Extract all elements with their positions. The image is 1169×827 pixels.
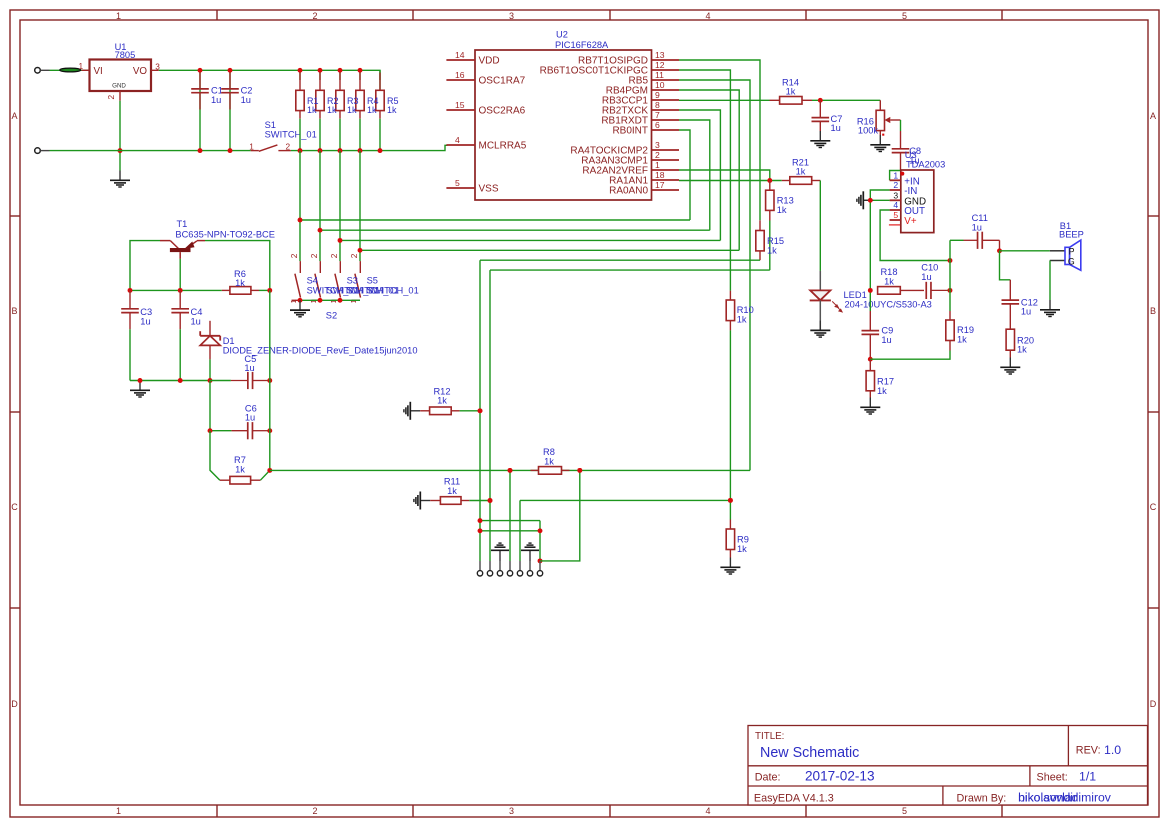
- capacitor C1 1u: [191, 86, 223, 105]
- junction OUT wire: [948, 258, 953, 263]
- capacitor C7 1u: [812, 114, 843, 133]
- wire R11 to column: [469, 500, 490, 502]
- svg-text:13: 13: [655, 50, 665, 60]
- wire R7 right bend: [260, 470, 269, 480]
- R7 leads: [220, 479, 261, 481]
- wire input to U1 VI: [50, 69, 90, 71]
- svg-text:1u: 1u: [831, 123, 841, 133]
- wire to speaker P: [1000, 250, 1050, 252]
- svg-text:VI: VI: [94, 66, 103, 77]
- wire bottom rail T1 area: [130, 380, 210, 382]
- svg-text:TITLE:: TITLE:: [755, 731, 784, 742]
- R18 right lead: [900, 289, 924, 291]
- resistor R15 1k: [756, 231, 784, 256]
- junction top rail x=300: [298, 68, 303, 73]
- junction pin1/pin18: [767, 178, 772, 183]
- svg-text:A: A: [1150, 111, 1156, 121]
- svg-text:4: 4: [455, 135, 460, 145]
- svg-text:1u: 1u: [972, 223, 982, 233]
- junction R8 right: [577, 468, 582, 473]
- wire R4 top lead: [359, 70, 361, 80]
- junction bus tap x=300: [298, 218, 303, 223]
- ground below C7: [810, 131, 830, 148]
- wire R3 top lead: [339, 70, 341, 80]
- junction C2 top: [228, 68, 233, 73]
- ferrite bead / ellipse on input wire: [60, 68, 81, 72]
- svg-text:V+: V+: [904, 216, 917, 227]
- wire R1 top lead: [299, 70, 301, 80]
- wire R13 bottom to bus270: [769, 221, 771, 271]
- wire to C11: [950, 239, 964, 241]
- capacitor C10 1u: [921, 263, 949, 299]
- svg-text:1: 1: [249, 141, 254, 151]
- wire R10 bottom to R9 line: [729, 330, 731, 500]
- regulator U1 7805: [79, 42, 161, 101]
- svg-text:D: D: [11, 699, 18, 709]
- svg-text:1u: 1u: [140, 316, 150, 326]
- capacitor C3 1u: [121, 307, 152, 326]
- wire R3 bottom lead: [339, 119, 341, 151]
- wire pin8 to bus: [679, 110, 720, 240]
- svg-text:4: 4: [705, 11, 710, 21]
- junction C6 right: [267, 428, 272, 433]
- wire parallel link y520: [480, 520, 540, 522]
- svg-text:1k: 1k: [1017, 345, 1027, 355]
- wire R5 bottom lead: [379, 119, 381, 151]
- bus wire y=220.0: [300, 219, 690, 221]
- C4 leads: [179, 290, 181, 329]
- switch S2 SWITCH_01: [349, 253, 361, 303]
- svg-text:S2: S2: [326, 311, 337, 321]
- svg-text:6: 6: [655, 120, 660, 130]
- capacitor C11 1u: [964, 213, 988, 249]
- svg-text:1u: 1u: [211, 95, 221, 105]
- junction bus tap x=360: [358, 248, 363, 253]
- wire R2 bottom lead: [319, 119, 321, 151]
- ground below R16: [870, 135, 890, 152]
- wire bus260 corner column1: [479, 260, 481, 561]
- wire link to R8 right: [540, 470, 580, 561]
- switch S3 SWITCH_01: [309, 253, 321, 303]
- resistor R4 1k: [356, 90, 364, 110]
- svg-text:12: 12: [655, 60, 665, 70]
- ground below R17: [860, 398, 880, 415]
- svg-text:MCLRRA5: MCLRRA5: [479, 141, 527, 152]
- junction top rail x=320: [318, 68, 323, 73]
- transistor T1 BC635-NPN-TO92-BCE: [160, 219, 275, 259]
- junction R9 top: [728, 498, 733, 503]
- inverted ground above pin6: [521, 543, 539, 561]
- wire parallel link y531: [480, 530, 540, 532]
- R20 bottom lead: [1009, 350, 1011, 357]
- svg-text:1: 1: [116, 11, 121, 21]
- wire U3 pin4 OUT: [880, 210, 950, 261]
- junction top rail x=360: [358, 68, 363, 73]
- junction top rail x=340: [338, 68, 343, 73]
- svg-text:New Schematic: New Schematic: [760, 745, 859, 761]
- potentiometer R16 100k: [857, 100, 901, 135]
- svg-text:1k: 1k: [347, 105, 357, 115]
- junction C10 right: [948, 288, 953, 293]
- junction C5 right: [267, 378, 272, 383]
- svg-text:3: 3: [893, 191, 898, 201]
- svg-text:S3: S3: [347, 275, 358, 285]
- wire pin1 to junction: [679, 170, 770, 181]
- svg-text:1u: 1u: [244, 363, 254, 373]
- svg-text:SWITCH_01: SWITCH_01: [367, 286, 419, 296]
- svg-text:S4: S4: [307, 275, 318, 285]
- svg-text:B: B: [11, 306, 17, 316]
- resistor R18 1k: [878, 267, 901, 294]
- switch S5 SWITCH_01: [329, 253, 341, 303]
- junction R7 right: [267, 468, 272, 473]
- amplifier U3 TDA2003: [889, 150, 945, 233]
- svg-text:3: 3: [509, 806, 514, 816]
- svg-text:5: 5: [893, 210, 898, 220]
- svg-text:5: 5: [902, 806, 907, 816]
- junction R9 top (top): [728, 498, 733, 503]
- ground at bottom rail: [130, 381, 150, 398]
- capacitor C6 1u: [231, 403, 267, 439]
- R21 leads: [782, 180, 821, 182]
- R9 leads: [729, 520, 731, 558]
- wire S1 to resistor rail: [291, 150, 380, 152]
- wire pin10 to bus: [679, 90, 739, 250]
- bus wire y=260: [480, 259, 760, 261]
- svg-text:8: 8: [655, 100, 660, 110]
- junction C9 bottom: [868, 357, 873, 362]
- speaker B1 BEEP: [1050, 221, 1084, 270]
- junction T1 left: [128, 288, 133, 293]
- junction col7 y531: [538, 528, 543, 533]
- svg-text:2017-02-13: 2017-02-13: [805, 769, 875, 784]
- R11 leads: [430, 500, 469, 502]
- resistor R10 1k: [726, 300, 754, 324]
- ground below R9: [720, 558, 740, 575]
- svg-text:VSS: VSS: [479, 184, 499, 195]
- svg-text:5: 5: [902, 11, 907, 21]
- svg-text:Date:: Date:: [755, 771, 781, 783]
- svg-text:1k: 1k: [235, 278, 245, 288]
- R12 leads: [420, 410, 459, 412]
- R14 leads: [770, 99, 813, 101]
- svg-text:G: G: [1068, 257, 1075, 267]
- svg-text:204-10UYC/S530-A3: 204-10UYC/S530-A3: [845, 300, 932, 310]
- wire column7 segment: [539, 521, 541, 561]
- wire switch bottoms: [300, 299, 360, 301]
- wire R19 bottom to C9 junction: [870, 351, 950, 360]
- wire U3 pin2 -IN: [870, 190, 889, 290]
- resistor R17 1k: [866, 371, 894, 396]
- junction C6 left: [208, 428, 213, 433]
- wire R9 line: [520, 499, 730, 501]
- svg-text:VDD: VDD: [479, 56, 500, 67]
- bus wire y=230.2: [320, 229, 710, 231]
- svg-text:2: 2: [655, 150, 660, 160]
- ground left of R11: [414, 492, 430, 510]
- svg-text:RB0INT: RB0INT: [612, 126, 648, 137]
- wire R8 line: [270, 469, 750, 471]
- svg-text:1u: 1u: [881, 335, 891, 345]
- svg-text:1k: 1k: [437, 396, 447, 406]
- svg-text:U2: U2: [556, 30, 568, 40]
- junction C2 bottom: [228, 148, 233, 153]
- wire R14 to R16: [812, 99, 880, 101]
- R15 leads: [759, 220, 761, 260]
- wire U1 pin2 to ground rail: [119, 101, 121, 171]
- wire pin13 to R15 column: [679, 60, 760, 220]
- R6 leads: [222, 289, 259, 291]
- svg-text:4: 4: [705, 806, 710, 816]
- wire column4 from R8 left: [509, 470, 511, 561]
- svg-text:1: 1: [79, 61, 84, 71]
- svg-text:1k: 1k: [796, 167, 806, 177]
- svg-text:1k: 1k: [544, 457, 554, 467]
- wire x210 down: [209, 381, 211, 431]
- junction col1 y531: [478, 528, 483, 533]
- resistor R20 1k: [1006, 329, 1034, 355]
- junction bottom rail x=340: [338, 148, 343, 153]
- wire C4 bottom: [179, 329, 181, 380]
- svg-text:1k: 1k: [786, 87, 796, 97]
- labels R1-R5: [307, 96, 399, 115]
- junction bus tap x=320: [318, 228, 323, 233]
- resistor R12 1k: [430, 386, 452, 414]
- junction R14/C7: [818, 98, 823, 103]
- svg-text:2: 2: [289, 253, 299, 258]
- svg-text:1k: 1k: [447, 486, 457, 496]
- svg-text:11: 11: [655, 70, 664, 80]
- wire switch column x=340: [339, 151, 341, 262]
- svg-text:15: 15: [455, 100, 465, 110]
- wire C5 left: [210, 380, 231, 382]
- wire C6 left: [210, 430, 231, 432]
- wire R16 wiper down: [900, 120, 902, 131]
- C3 leads: [129, 290, 131, 329]
- svg-text:3: 3: [509, 11, 514, 21]
- wire R4 bottom lead: [359, 119, 361, 151]
- resistor R5 1k: [376, 90, 384, 110]
- wire switch column x=360: [359, 151, 361, 262]
- svg-text:OSC2RA6: OSC2RA6: [479, 106, 526, 117]
- junction bottom rail x=300: [298, 148, 303, 153]
- R13 leads: [769, 181, 771, 221]
- wire pin6 to bus: [679, 130, 690, 220]
- R19 leads: [949, 311, 951, 351]
- svg-text:C: C: [11, 502, 18, 512]
- svg-text:EasyEDA V4.1.3: EasyEDA V4.1.3: [754, 792, 834, 804]
- C9 leads: [869, 311, 871, 359]
- resistor R14 1k: [780, 77, 802, 104]
- wire pin12 to R10 column: [679, 70, 730, 291]
- svg-text:5: 5: [455, 178, 460, 188]
- capacitor C8 1u: [892, 146, 921, 165]
- bus wire y=270: [490, 269, 770, 271]
- resistor R6 1k: [230, 269, 251, 294]
- junction gnd tap: [138, 378, 143, 383]
- svg-text:1u: 1u: [245, 413, 255, 423]
- svg-text:TDA2003: TDA2003: [906, 159, 945, 169]
- svg-text:4: 4: [893, 200, 898, 210]
- resistor R13 1k: [766, 190, 794, 215]
- terminal input (-): [35, 148, 50, 154]
- svg-text:SWITCH_01: SWITCH_01: [265, 130, 317, 140]
- resistor R21 1k: [790, 157, 812, 184]
- junction bus tap x=340: [338, 238, 343, 243]
- junction R12: [478, 408, 483, 413]
- C7 top lead: [819, 100, 821, 131]
- svg-text:100k: 100k: [858, 126, 879, 136]
- C11 right lead: [982, 240, 999, 251]
- wire C2 column: [229, 70, 231, 150]
- svg-text:1: 1: [116, 806, 121, 816]
- svg-text:RA0AN0: RA0AN0: [609, 186, 648, 197]
- wire C6 right: [267, 430, 270, 432]
- zener diode D1: [200, 321, 417, 360]
- svg-text:9: 9: [655, 90, 660, 100]
- svg-text:OSC1RA7: OSC1RA7: [479, 76, 526, 87]
- C2 red leads: [229, 70, 231, 109]
- junction T1 base: [178, 288, 183, 293]
- resistor R11 1k: [440, 477, 461, 505]
- svg-text:GND: GND: [112, 83, 126, 90]
- svg-text:LED1: LED1: [844, 290, 867, 300]
- resistor R2 1k: [316, 90, 324, 110]
- wire R19 column: [949, 240, 951, 311]
- svg-text:T1: T1: [177, 219, 188, 229]
- junction C1 top: [198, 68, 203, 73]
- svg-text:1/1: 1/1: [1079, 770, 1096, 784]
- svg-text:1: 1: [893, 171, 898, 181]
- resistor R3 1k: [336, 90, 344, 110]
- junction U1 ground column: [118, 148, 123, 153]
- svg-text:Sheet:: Sheet:: [1037, 771, 1068, 783]
- svg-text:2: 2: [312, 11, 317, 21]
- svg-text:1k: 1k: [387, 105, 397, 115]
- C1 red leads: [199, 70, 201, 109]
- switch labels S4 S3 S5 S2: [307, 275, 419, 320]
- svg-text:1u: 1u: [241, 95, 251, 105]
- wire pin7 to bus: [679, 120, 710, 230]
- svg-text:7805: 7805: [115, 50, 136, 60]
- junction col1 y520: [478, 518, 483, 523]
- svg-text:17: 17: [655, 180, 665, 190]
- R8 leads: [531, 469, 570, 471]
- wire C3 bottom: [129, 329, 131, 380]
- svg-text:BEEP: BEEP: [1059, 230, 1084, 240]
- junction D1 bottom: [208, 378, 213, 383]
- connector terminals (7 pins): [477, 561, 542, 576]
- wire switch column x=300: [299, 151, 301, 262]
- svg-text:3: 3: [655, 140, 660, 150]
- R4 leads: [359, 73, 361, 119]
- svg-text:1u: 1u: [1021, 307, 1031, 317]
- junction bottom rail x=380: [378, 148, 383, 153]
- bus wire y=250.3: [360, 249, 739, 251]
- svg-text:PIC16F628A: PIC16F628A: [555, 40, 609, 50]
- R2 leads: [319, 73, 321, 119]
- junction R11 (top): [488, 498, 493, 503]
- svg-text:10: 10: [655, 80, 665, 90]
- wire D1 to rail: [209, 359, 211, 380]
- R17 leads: [869, 359, 871, 397]
- junction R8 left (top): [508, 468, 513, 473]
- svg-text:VO: VO: [133, 66, 148, 77]
- junction bottom rail x=320: [318, 148, 323, 153]
- wire switch column x=320: [319, 151, 321, 262]
- junction R11: [488, 498, 493, 503]
- wire U3 pin3 GND: [863, 199, 889, 201]
- junction U3 pin1: [900, 172, 904, 176]
- wire pin18 to R21: [679, 180, 782, 182]
- inverted ground above pin3: [491, 543, 509, 561]
- svg-text:1k: 1k: [877, 386, 887, 396]
- svg-text:1: 1: [289, 299, 298, 303]
- svg-text:1k: 1k: [327, 105, 337, 115]
- R1 leads: [299, 73, 301, 119]
- ground below R20: [1000, 358, 1020, 375]
- wire rail to MCLR: [380, 145, 448, 150]
- wire base rail: [130, 289, 222, 291]
- wire C5 right junction: [267, 380, 270, 382]
- svg-text:1k: 1k: [957, 335, 967, 345]
- capacitor C9 1u: [862, 326, 894, 345]
- R3 leads: [339, 73, 341, 119]
- svg-text:1u: 1u: [191, 316, 201, 326]
- switch S1 SWITCH_01: [249, 120, 316, 152]
- wire column5 from R9 line: [519, 500, 521, 561]
- wire C11 junction to C12: [1000, 251, 1011, 280]
- svg-text:2: 2: [106, 95, 116, 100]
- svg-text:16: 16: [455, 70, 465, 80]
- svg-text:Drawn By:: Drawn By:: [957, 792, 1007, 804]
- svg-text:1k: 1k: [884, 277, 894, 287]
- wire R7 bends: [210, 431, 220, 481]
- junction switch bottom x=320: [318, 298, 323, 303]
- svg-text:18: 18: [655, 170, 665, 180]
- resistor R9 1k: [726, 529, 749, 554]
- ground below U1: [110, 171, 130, 188]
- C8 leads: [900, 131, 902, 171]
- svg-text:1k: 1k: [737, 544, 747, 554]
- svg-text:14: 14: [455, 50, 465, 60]
- resistor R7 1k: [230, 455, 251, 484]
- svg-text:2: 2: [329, 253, 339, 258]
- svg-text:2: 2: [286, 141, 291, 151]
- svg-text:7: 7: [655, 110, 660, 120]
- wire R9 top: [729, 500, 731, 519]
- junction C1 bottom: [198, 148, 203, 153]
- ground below LED1: [810, 321, 830, 338]
- junction bottom rail x=360: [358, 148, 363, 153]
- svg-text:BC635-NPN-TO92-BCE: BC635-NPN-TO92-BCE: [175, 229, 275, 239]
- wire bus270 corner column2: [489, 270, 491, 561]
- junction C11/speaker: [997, 248, 1002, 253]
- wire pin9 to R14: [679, 99, 770, 101]
- wire bottom rail left segment: [50, 150, 251, 152]
- junction R6 right: [267, 288, 272, 293]
- wire R21 to LED: [819, 181, 821, 271]
- wire R5 top lead: [379, 70, 381, 80]
- resistor R8 1k: [539, 447, 562, 474]
- svg-text:1k: 1k: [777, 205, 787, 215]
- wire C10 to R19 column: [947, 289, 950, 291]
- svg-text:1k: 1k: [235, 465, 245, 475]
- ground below speaker: [1040, 300, 1060, 317]
- bus wire y=240.4: [340, 239, 720, 241]
- svg-text:C: C: [1150, 502, 1157, 512]
- svg-text:1u: 1u: [921, 272, 931, 282]
